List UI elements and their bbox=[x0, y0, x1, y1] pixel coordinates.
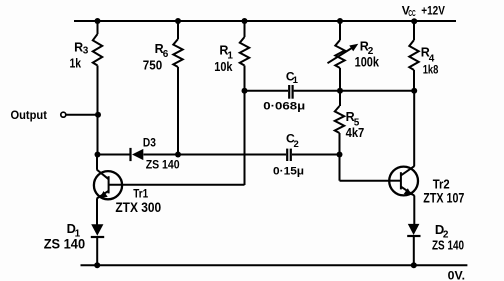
svg-text:R: R bbox=[74, 40, 83, 54]
svg-text:2: 2 bbox=[294, 139, 299, 150]
svg-text:CC: CC bbox=[408, 9, 415, 18]
svg-text:10k: 10k bbox=[214, 59, 233, 74]
svg-text:ZTX 300: ZTX 300 bbox=[115, 199, 161, 215]
svg-text:4k7: 4k7 bbox=[346, 125, 365, 140]
svg-text:ZS 140: ZS 140 bbox=[432, 237, 464, 252]
svg-text:3: 3 bbox=[83, 46, 89, 57]
svg-text:D3: D3 bbox=[143, 136, 156, 149]
svg-text:1: 1 bbox=[293, 75, 299, 86]
svg-text:ZTX 107: ZTX 107 bbox=[423, 190, 464, 206]
svg-text:Output: Output bbox=[11, 108, 47, 122]
svg-text:1k: 1k bbox=[70, 55, 82, 70]
svg-text:+12V: +12V bbox=[421, 6, 445, 18]
svg-text:750: 750 bbox=[143, 58, 162, 73]
svg-text:ZS 140: ZS 140 bbox=[146, 157, 180, 171]
svg-text:100k: 100k bbox=[355, 55, 380, 70]
svg-text:0V.: 0V. bbox=[448, 268, 465, 281]
svg-text:6: 6 bbox=[163, 49, 169, 60]
svg-text:1k8: 1k8 bbox=[423, 64, 439, 77]
svg-text:0·15μ: 0·15μ bbox=[273, 166, 304, 178]
svg-text:0·068μ: 0·068μ bbox=[263, 100, 305, 112]
svg-text:ZS 140: ZS 140 bbox=[44, 236, 86, 252]
